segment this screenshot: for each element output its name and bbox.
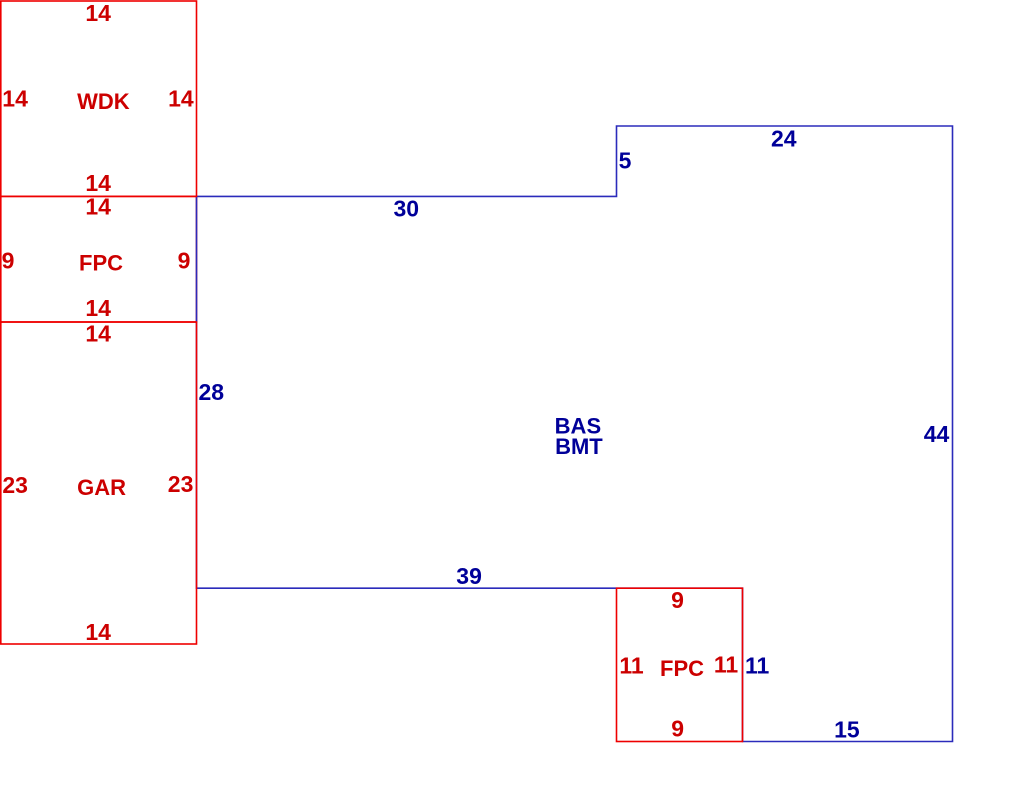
svg-text:FPC: FPC [79, 251, 123, 276]
svg-text:15: 15 [834, 716, 860, 742]
svg-text:BMT: BMT [555, 434, 603, 459]
area BAS/BMT blue polygon [197, 126, 953, 742]
area GAR [1, 322, 197, 644]
svg-text:14: 14 [85, 619, 111, 645]
svg-text:11: 11 [714, 652, 739, 678]
svg-text:11: 11 [745, 653, 770, 679]
svg-text:14: 14 [168, 86, 194, 112]
svg-text:14: 14 [85, 170, 111, 196]
svg-text:14: 14 [2, 86, 28, 112]
svg-text:5: 5 [619, 147, 632, 173]
area FPC (bottom right) [617, 588, 743, 741]
svg-text:14: 14 [85, 321, 111, 347]
svg-text:23: 23 [168, 471, 194, 497]
svg-text:GAR: GAR [77, 475, 126, 500]
svg-text:9: 9 [2, 248, 15, 274]
svg-text:FPC: FPC [660, 656, 704, 681]
svg-text:14: 14 [85, 194, 111, 220]
area WDK [1, 1, 197, 196]
svg-text:23: 23 [2, 472, 28, 498]
svg-text:11: 11 [619, 653, 644, 679]
svg-text:9: 9 [178, 248, 191, 274]
svg-text:28: 28 [199, 379, 225, 405]
svg-text:39: 39 [456, 563, 482, 589]
area FPC (left, under blue edge) [1, 196, 197, 322]
svg-text:30: 30 [394, 195, 420, 221]
svg-text:14: 14 [85, 0, 111, 26]
svg-text:24: 24 [771, 126, 797, 152]
svg-text:14: 14 [85, 295, 111, 321]
svg-text:WDK: WDK [77, 89, 130, 114]
svg-text:44: 44 [924, 421, 950, 447]
svg-text:9: 9 [671, 587, 684, 613]
svg-text:9: 9 [671, 716, 684, 742]
